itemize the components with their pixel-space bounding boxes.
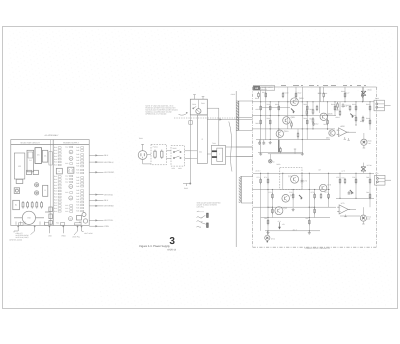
svg-text:(SEE P/L): (SEE P/L) xyxy=(73,236,81,239)
svg-text:Q72: Q72 xyxy=(288,175,292,178)
svg-text:WHT NOM: WHT NOM xyxy=(84,232,93,235)
svg-text:S601: S601 xyxy=(192,103,196,106)
svg-text:C642: C642 xyxy=(345,104,349,107)
svg-text:T601: T601 xyxy=(212,142,216,145)
svg-text:C6: C6 xyxy=(44,154,46,157)
svg-text:RED: RED xyxy=(62,234,67,237)
svg-text:U630: U630 xyxy=(340,125,345,128)
svg-text:U70: U70 xyxy=(341,202,344,205)
svg-text:A1 ASSEMBLY: A1 ASSEMBLY xyxy=(45,134,60,137)
svg-text:Figure 3-3. Power Supply: Figure 3-3. Power Supply xyxy=(139,245,170,248)
svg-text:P602: P602 xyxy=(184,187,188,190)
svg-text:LR: LR xyxy=(18,165,21,168)
svg-text:C73: C73 xyxy=(351,192,354,195)
svg-text:GRN/YEL (GND): GRN/YEL (GND) xyxy=(9,238,22,241)
svg-text:F601: F601 xyxy=(201,102,205,105)
svg-text:DS70: DS70 xyxy=(271,237,275,240)
svg-text:C4: C4 xyxy=(29,159,31,162)
svg-text:GRN: GRN xyxy=(104,225,109,228)
svg-text:WHT/VIO: WHT/VIO xyxy=(104,193,113,196)
svg-text:Q73: Q73 xyxy=(327,184,331,187)
svg-text:WHT/RED: WHT/RED xyxy=(104,205,114,208)
svg-text:T60: T60 xyxy=(27,217,30,220)
svg-text:FL601: FL601 xyxy=(153,145,158,148)
svg-text:LIST (PL): LIST (PL) xyxy=(197,206,205,209)
svg-text:VIO: VIO xyxy=(48,234,52,237)
svg-text:WHT/YEL: WHT/YEL xyxy=(104,219,114,222)
svg-text:C70: C70 xyxy=(304,180,307,183)
svg-text:Q635: Q635 xyxy=(328,113,333,116)
svg-text:B1: B1 xyxy=(15,204,17,207)
svg-text:S602: S602 xyxy=(173,147,177,150)
svg-text:Q615: Q615 xyxy=(284,130,289,133)
svg-text:C5: C5 xyxy=(37,154,39,157)
svg-text:POWER SUPPLY: POWER SUPPLY xyxy=(63,141,80,144)
svg-text:BLU: BLU xyxy=(104,199,108,202)
svg-text:OPERATING AT LT RANGE: OPERATING AT LT RANGE xyxy=(145,113,167,116)
svg-text:Q64: Q64 xyxy=(326,137,330,140)
svg-text:C62: C62 xyxy=(315,123,318,126)
svg-text:POWER SUPPLY BOARD A2: POWER SUPPLY BOARD A2 xyxy=(305,247,330,250)
svg-text:P601: P601 xyxy=(139,137,143,140)
svg-text:WHT/ORG: WHT/ORG xyxy=(104,171,114,174)
svg-text:WHT/BLU: WHT/BLU xyxy=(104,161,114,164)
svg-text:-33.5 V: -33.5 V xyxy=(255,170,261,173)
svg-text:Q625: Q625 xyxy=(299,97,304,100)
svg-text:BLU: BLU xyxy=(104,154,108,157)
svg-text:Q70: Q70 xyxy=(283,207,287,210)
svg-text:Q621: Q621 xyxy=(291,116,296,119)
svg-text:6-5/5-12: 6-5/5-12 xyxy=(167,249,176,252)
svg-text:3: 3 xyxy=(169,236,175,247)
svg-text:SELECTOR CIRCUIT: SELECTOR CIRCUIT xyxy=(20,141,40,144)
